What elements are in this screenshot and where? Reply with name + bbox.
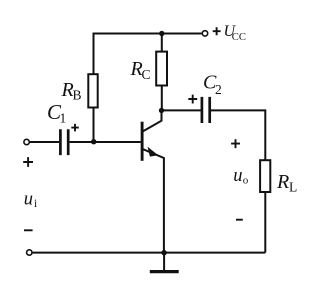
svg-text:u: u bbox=[24, 190, 33, 210]
svg-text:2: 2 bbox=[215, 82, 222, 97]
svg-text:R: R bbox=[276, 171, 289, 193]
svg-text:o: o bbox=[243, 175, 249, 187]
svg-text:1: 1 bbox=[60, 111, 67, 126]
svg-text:i: i bbox=[34, 198, 37, 210]
svg-text:B: B bbox=[73, 88, 82, 103]
svg-text:u: u bbox=[233, 166, 242, 186]
svg-text:CC: CC bbox=[232, 32, 246, 43]
svg-text:L: L bbox=[289, 180, 297, 195]
svg-text:C: C bbox=[142, 67, 151, 82]
